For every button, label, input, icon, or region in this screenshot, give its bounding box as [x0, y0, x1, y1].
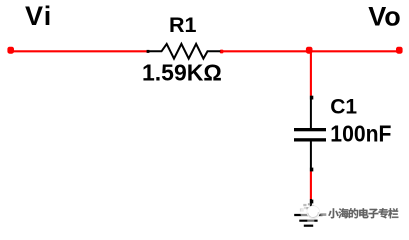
svg-text:100nF: 100nF: [330, 121, 391, 147]
wire junction down to C1 top pin: [310, 50, 312, 96]
svg-text:R1: R1: [169, 13, 197, 37]
watermark text white emboss: [329, 209, 399, 219]
wire R1 right lead to Vo: [220, 50, 399, 52]
ground: [294, 199, 322, 226]
node Vi terminal dot: [7, 47, 14, 54]
svg-text:1.59KΩ: 1.59KΩ: [142, 59, 222, 85]
watermark logo blob: [300, 203, 326, 222]
capacitor C1: [294, 96, 326, 172]
svg-text:Vi: Vi: [25, 1, 52, 31]
svg-text:C1: C1: [330, 96, 357, 119]
node junction at R1/C1/Vo: [306, 47, 313, 54]
resistor R1: [147, 44, 221, 59]
wire C1 bottom pin to ground: [310, 171, 312, 199]
wire Vi to R1 left lead: [11, 50, 148, 52]
watermark text 小海的电子专栏: [328, 208, 398, 218]
svg-text:Vo: Vo: [368, 1, 401, 31]
wire right terminal red pin nub: [220, 50, 224, 54]
node Vo terminal dot: [396, 47, 403, 54]
